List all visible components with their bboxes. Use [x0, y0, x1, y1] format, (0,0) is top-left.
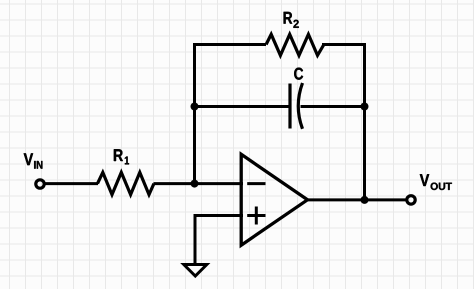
label VOUT	[420, 174, 452, 190]
wire R1 to op-amp inverting input	[154, 182, 244, 185]
label R1	[114, 149, 129, 164]
ground	[184, 265, 207, 277]
wire node B to capacitor	[195, 105, 291, 108]
wire capacitor to node D	[301, 105, 365, 108]
node D capacitor-right junction	[361, 103, 369, 111]
wire right feedback riser	[363, 43, 366, 200]
terminal VOUT	[407, 196, 415, 204]
resistor R2	[266, 34, 324, 55]
label R2	[284, 12, 299, 28]
op-amp U1 inverting input marker	[247, 182, 265, 185]
label C	[294, 68, 303, 80]
wire VIN to R1	[44, 182, 98, 185]
node A inverting-input junction	[191, 180, 199, 188]
wire non-inverting input to ground	[195, 216, 243, 268]
node B capacitor-left junction	[191, 103, 199, 111]
terminal VIN	[36, 180, 44, 188]
node E output junction	[361, 196, 369, 204]
wire left feedback riser	[195, 45, 267, 184]
wire R2 to right riser	[322, 43, 365, 46]
op-amp U1 non-inverting input marker	[247, 207, 265, 225]
label VIN	[24, 153, 43, 168]
capacitor C	[290, 83, 303, 129]
wire op-amp output to VOUT	[306, 198, 407, 201]
op-amp U1	[241, 154, 307, 245]
resistor R1	[98, 172, 154, 194]
